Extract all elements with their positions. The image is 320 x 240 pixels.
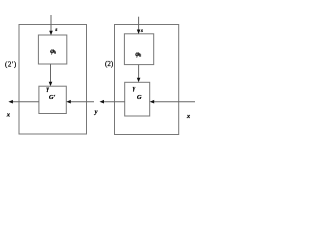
svg-text:x: x	[6, 111, 11, 118]
svg-text:y: y	[94, 108, 98, 115]
svg-text:G: G	[137, 94, 142, 101]
svg-text:s: s	[140, 28, 143, 34]
box gammaG' left	[39, 86, 66, 113]
arrow phi_h to gammaG right	[137, 65, 141, 83]
svg-text:(2′): (2′)	[5, 60, 17, 68]
outer box left	[19, 25, 87, 135]
arrow phi_h to gammaG' left	[49, 64, 53, 86]
box gammaG right	[125, 82, 150, 116]
output arrow y right	[100, 100, 125, 104]
box phi_h right	[124, 34, 153, 65]
input arrow y left	[66, 100, 94, 104]
svg-text:G′: G′	[49, 94, 56, 101]
output arrow x left	[8, 100, 39, 104]
outer box right	[115, 25, 179, 135]
svg-text:(2): (2)	[105, 60, 114, 68]
input arrow x right	[150, 100, 195, 104]
input arrow s left	[49, 15, 57, 35]
box phi_h left	[38, 35, 66, 64]
input arrow s right	[137, 17, 143, 34]
svg-text:s: s	[54, 27, 57, 33]
